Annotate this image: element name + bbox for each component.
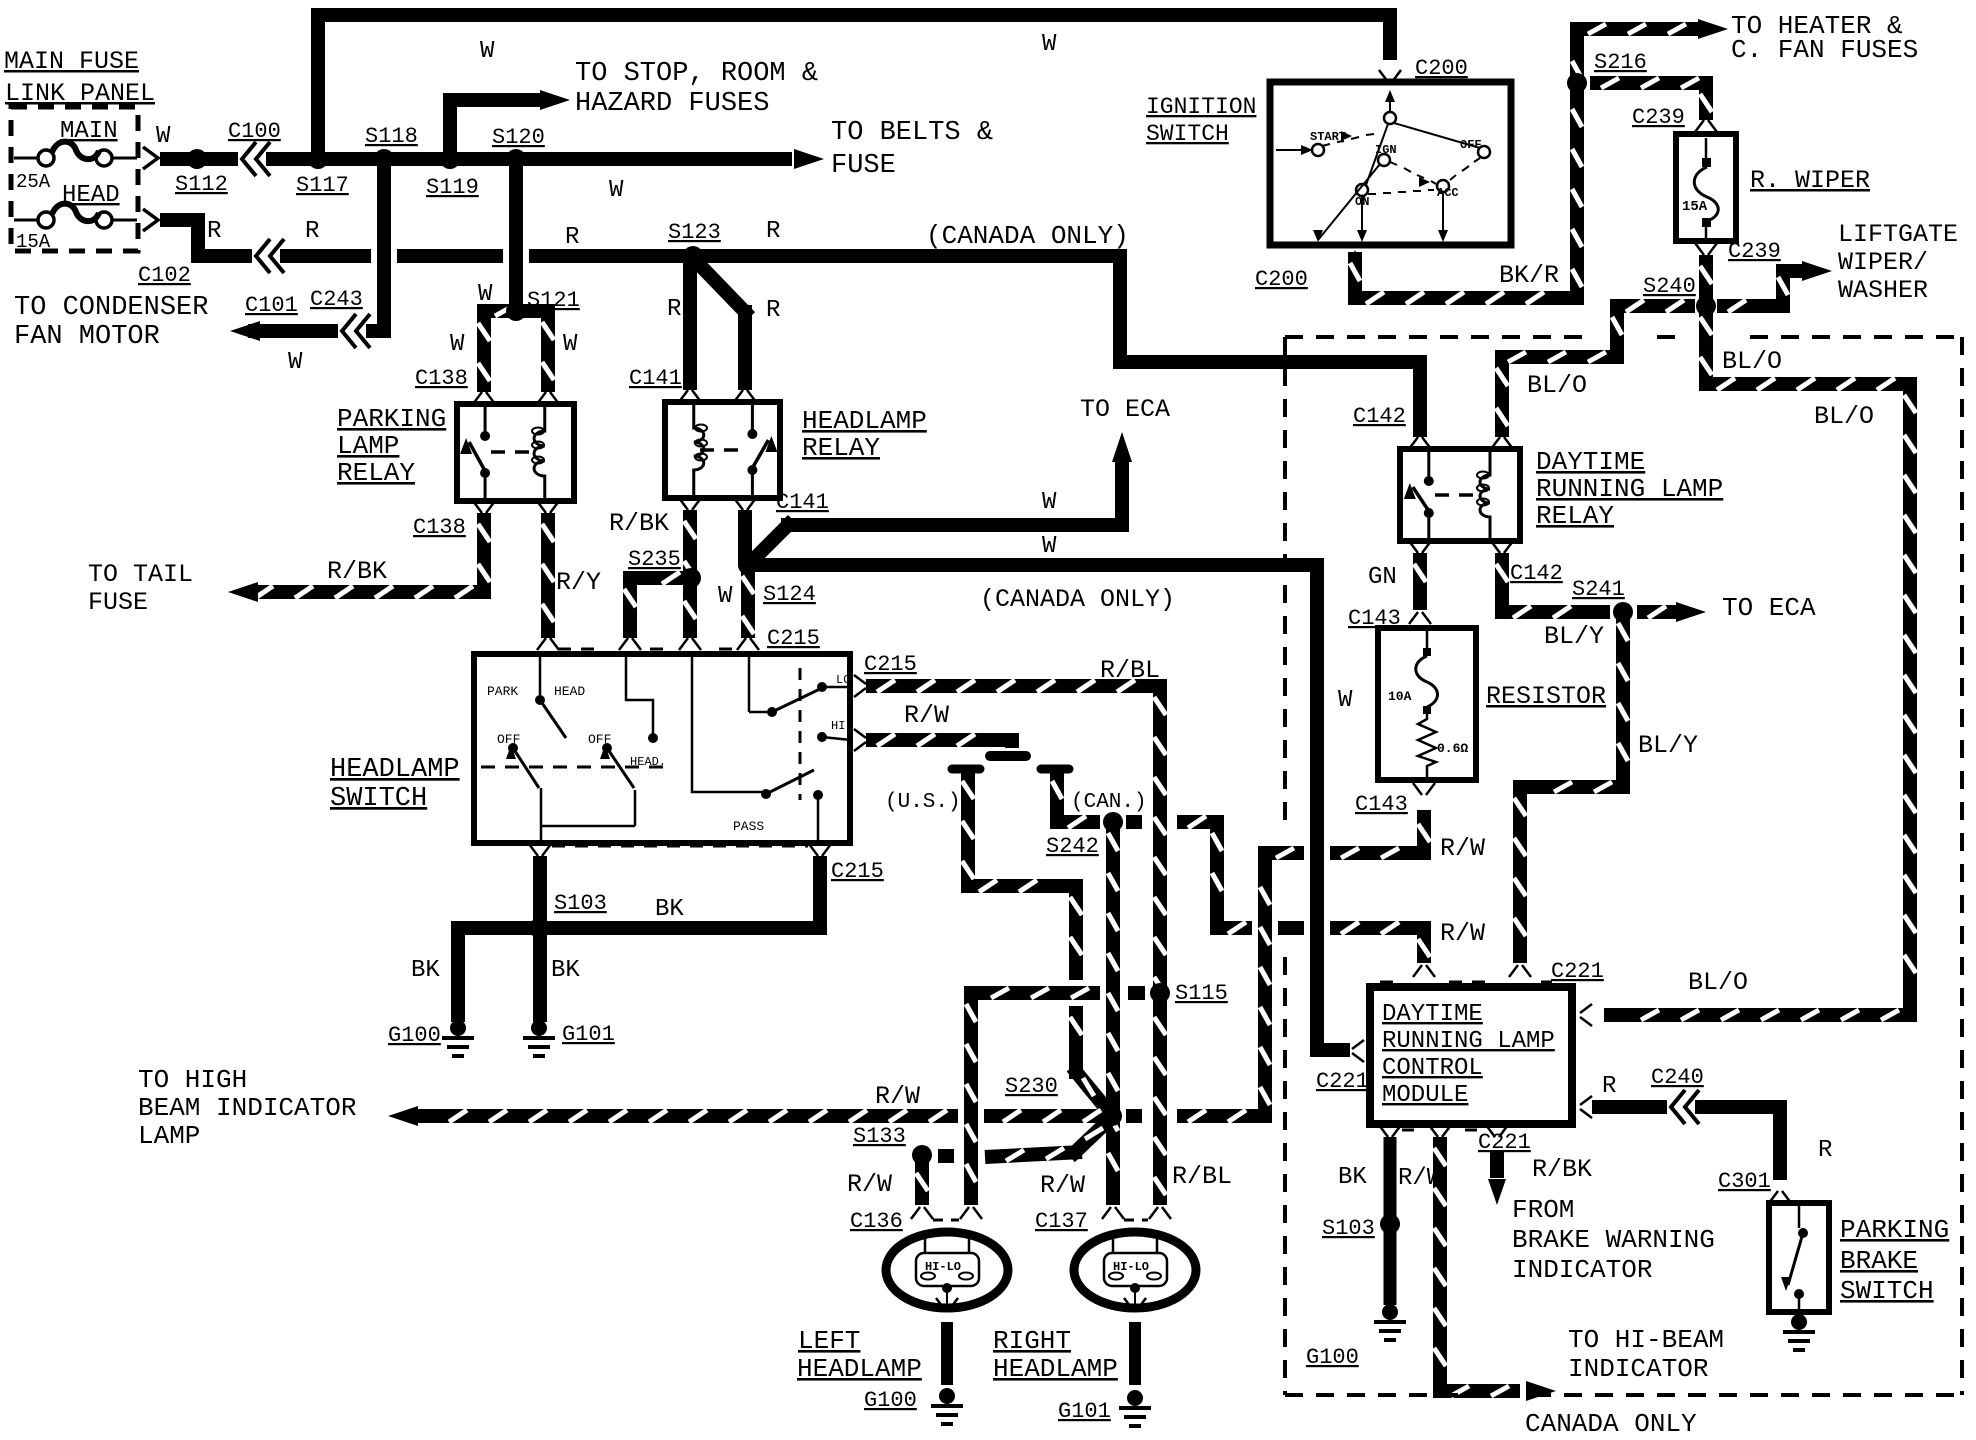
svg-text:S103: S103 [1322,1216,1375,1241]
svg-text:C136: C136 [850,1209,903,1234]
svg-text:LEFT: LEFT [798,1326,860,1356]
headlamp switch box [474,654,850,843]
wire R/BK module from brake warning indicator [1488,1150,1592,1205]
svg-text:R/BL: R/BL [1100,656,1160,685]
svg-text:MAIN FUSE: MAIN FUSE [4,47,139,76]
ignition switch internals [1276,90,1490,242]
svg-text:S216: S216 [1594,50,1647,75]
parking lamp relay K1 [457,404,574,501]
svg-text:R: R [207,218,221,245]
svg-text:C142: C142 [1353,404,1406,429]
svg-text:BL/Y: BL/Y [1638,731,1698,760]
svg-text:0.6Ω: 0.6Ω [1437,741,1468,756]
svg-text:C200: C200 [1415,56,1468,81]
wire BK switch ground to S103 and C215 return [411,856,827,1022]
svg-text:TO ECA: TO ECA [1080,395,1170,424]
connector C142 lower [1409,541,1563,586]
svg-text:C102: C102 [138,263,191,288]
wire GN relay to resistor [1368,553,1426,610]
svg-text:R: R [766,297,780,324]
svg-text:BRAKE WARNING: BRAKE WARNING [1512,1225,1715,1255]
svg-text:PASS: PASS [733,819,764,834]
svg-text:R/W: R/W [847,1170,892,1199]
svg-text:TO HIGH: TO HIGH [138,1065,247,1095]
svg-text:C215: C215 [767,626,820,651]
svg-text:C221: C221 [1551,959,1604,984]
wire W riser to stop room hazard fuses [443,38,570,159]
hook U.S. option [885,769,980,814]
svg-text:C221: C221 [1478,1130,1531,1155]
svg-text:W: W [1042,489,1057,516]
svg-text:C215: C215 [831,859,884,884]
svg-text:S242: S242 [1046,834,1099,859]
ground parking brake switch [1791,1314,1807,1330]
splice S230 [1005,1074,1122,1126]
svg-text:BL/O: BL/O [1527,371,1587,400]
wire W headlamp relay to S124 [738,510,752,565]
svg-text:C138: C138 [413,515,466,540]
svg-text:TO BELTS &: TO BELTS & [831,118,993,148]
svg-text:G101: G101 [562,1022,615,1047]
canada only dashed border [1285,337,1962,1439]
label right headlamp [993,1326,1118,1384]
svg-text:BL/O: BL/O [1722,347,1782,376]
svg-text:S117: S117 [296,173,349,198]
connector C200 bottom [1255,250,1362,292]
wire to liftgate wiper washer [1717,261,1832,313]
wire R module to parking brake switch [1592,1073,1832,1180]
wire R/W long run to high beam indicator lamp [388,1082,1112,1126]
svg-text:TO ECA: TO ECA [1722,593,1816,623]
svg-text:R/W: R/W [1440,834,1485,863]
hook CAN option [1041,769,1147,814]
svg-text:C221: C221 [1316,1069,1369,1094]
connector C215 right outputs [854,652,917,751]
svg-text:W: W [478,281,493,308]
svg-text:S230: S230 [1005,1074,1058,1099]
splice S115 [1150,981,1228,1006]
svg-text:PARKING: PARKING [337,404,446,434]
svg-text:R/W: R/W [1440,919,1485,948]
svg-text:S235: S235 [628,547,681,572]
svg-text:LINK PANEL: LINK PANEL [5,79,155,108]
svg-text:S124: S124 [763,582,816,607]
label to heater and c fan fuses [1731,11,1918,65]
wire R/W CAN routing to S242 and C137 [1050,770,1118,1205]
svg-text:G100: G100 [388,1023,441,1048]
wire S133 drop to C136 [847,1162,928,1205]
svg-text:(CANADA ONLY): (CANADA ONLY) [926,221,1129,251]
svg-text:W: W [1338,687,1353,714]
svg-text:RELAY: RELAY [337,458,415,488]
panel output half-connectors [143,147,158,231]
svg-text:BK: BK [551,957,580,984]
svg-text:C142: C142 [1510,561,1563,586]
svg-text:CONTROL: CONTROL [1382,1055,1483,1082]
connector C200 top [1379,56,1468,82]
svg-text:FAN MOTOR: FAN MOTOR [14,322,160,352]
wire BL/Y S241 to DRL module C221 [1513,612,1698,963]
svg-text:HI: HI [831,719,845,733]
svg-text:C239: C239 [1632,105,1685,130]
label left headlamp [797,1326,922,1384]
wire branch S235 to switch [623,571,691,638]
svg-text:C239: C239 [1728,239,1781,264]
svg-text:10A: 10A [1388,689,1412,704]
svg-text:TO HI-BEAM: TO HI-BEAM [1568,1325,1724,1355]
wire R/W S230 diagonal branch to S133 [938,1120,1109,1200]
splice S118 [365,124,418,169]
connector C221 bottom pins [1379,1125,1531,1155]
splice S121 [506,288,580,321]
svg-text:R: R [565,224,579,251]
svg-text:WASHER: WASHER [1838,276,1928,305]
wire R/W U.S. routing to S230 [961,770,1109,1112]
label to tail fuse [88,560,193,617]
connector C137 [1035,1207,1171,1234]
splice S123 [668,220,721,266]
svg-text:C200: C200 [1255,267,1308,292]
svg-text:GN: GN [1368,564,1397,591]
svg-text:R: R [667,296,681,323]
svg-text:HEAD: HEAD [554,684,585,699]
svg-text:R: R [766,218,780,245]
connector C240 [1651,1065,1704,1124]
svg-text:PARK: PARK [487,684,518,699]
svg-text:DAYTIME: DAYTIME [1536,447,1645,477]
svg-text:FUSE: FUSE [831,151,896,181]
svg-text:BRAKE: BRAKE [1840,1246,1918,1276]
parking brake switch [1769,1203,1829,1312]
wire W main bus [156,123,792,204]
svg-text:LAMP: LAMP [337,431,399,461]
left headlamp lamp [886,1232,1008,1308]
svg-text:BK: BK [1338,1164,1367,1191]
ground G100 canada [1306,1304,1406,1370]
splice S112 [175,149,228,197]
svg-text:S103: S103 [554,891,607,916]
svg-text:C215: C215 [864,652,917,677]
svg-text:HAZARD FUSES: HAZARD FUSES [575,89,769,119]
svg-text:R/W: R/W [1398,1165,1442,1192]
svg-text:BL/Y: BL/Y [1544,622,1604,651]
splice S216 [1567,50,1647,93]
connector C102 [138,263,191,288]
svg-text:C240: C240 [1651,1065,1704,1090]
svg-text:RESISTOR: RESISTOR [1486,682,1606,711]
svg-text:W: W [1042,533,1057,560]
svg-text:HEADLAMP: HEADLAMP [797,1354,922,1384]
svg-text:C243: C243 [310,287,363,312]
wire R/W S242 to DRL control module C221 [1126,815,1485,963]
svg-text:LAMP: LAMP [138,1121,200,1151]
label to condenser fan motor [14,293,208,352]
label to stop room hazard fuses [575,59,818,119]
connector C243 [310,287,370,348]
svg-text:BEAM INDICATOR: BEAM INDICATOR [138,1093,356,1123]
splice S103 [1322,1214,1400,1241]
connector C141 lower [679,490,829,515]
wire W S124 down to headlamp switch [742,565,754,638]
connector C221 right pins [1580,1004,1592,1118]
fuse HEAD 15A [14,182,137,253]
svg-text:W: W [480,38,495,65]
svg-text:15A: 15A [16,231,51,253]
headlamp switch internals [481,657,851,843]
wire branch S115 to left headlamp [964,986,1145,1205]
svg-text:IGNITION: IGNITION [1146,94,1256,120]
splice S242 [1046,812,1123,859]
svg-text:(CAN.): (CAN.) [1071,791,1147,814]
splice S241 [1572,577,1633,622]
wire fuse to S240 [1700,255,1712,306]
label headlamp relay [802,406,927,463]
svg-text:25A: 25A [16,171,51,193]
svg-text:C141: C141 [776,490,829,515]
svg-text:C. FAN FUSES: C. FAN FUSES [1731,35,1918,65]
wire W parking relay feed pins [450,304,578,392]
wire W drop S118 to condenser fan motor [230,159,391,376]
svg-text:HEADLAMP: HEADLAMP [993,1354,1118,1384]
svg-text:S133: S133 [853,1124,906,1149]
svg-text:BL/O: BL/O [1814,402,1874,431]
arrow to belts and fuse [794,118,993,181]
svg-text:S115: S115 [1175,981,1228,1006]
connector C142 upper [1353,404,1513,449]
svg-text:C100: C100 [228,119,281,144]
svg-text:W: W [156,123,171,150]
splice S103 [529,891,607,938]
svg-text:G101: G101 [1058,1399,1111,1424]
svg-text:W: W [563,331,578,358]
wire R/Y parking relay to headlamp switch [542,513,601,638]
svg-text:S118: S118 [365,124,418,149]
ground G101 right headlamp [1058,1390,1151,1426]
wire R/W S230 to resistor C143 [1126,810,1485,1123]
label to hi-beam indicator [1568,1325,1724,1384]
wire R bus from head fuse [160,213,1427,437]
main fuse link panel [4,47,155,251]
svg-text:S241: S241 [1572,577,1625,602]
svg-text:BK/R: BK/R [1499,261,1559,290]
svg-text:RELAY: RELAY [802,433,880,463]
svg-text:S120: S120 [492,125,545,150]
svg-text:RIGHT: RIGHT [993,1326,1071,1356]
svg-text:C143: C143 [1355,792,1408,817]
ground G100 left [388,1020,474,1056]
wire BK/R ignition to S216 [1348,90,1584,305]
svg-text:G100: G100 [864,1388,917,1413]
svg-text:W: W [1042,31,1057,58]
ignition switch box [1270,82,1511,245]
label daytime running lamp relay [1536,447,1723,531]
svg-text:W: W [288,349,303,376]
svg-text:R. WIPER: R. WIPER [1750,166,1870,195]
label ignition switch [1146,94,1256,147]
connector C239 lower [1695,239,1781,264]
svg-text:TO STOP, ROOM &: TO STOP, ROOM & [575,59,818,89]
splice S240 [1643,274,1716,316]
right headlamp lamp [1074,1232,1196,1308]
splice S119 [426,149,479,200]
svg-text:SWITCH: SWITCH [1840,1276,1934,1306]
label headlamp switch [330,755,460,814]
svg-text:C101: C101 [245,293,298,318]
svg-text:TO TAIL: TO TAIL [88,560,193,589]
wire to heater and c fan fuses [1570,19,1728,90]
connector C143 upper [1348,606,1431,631]
wire W top bus to ignition switch [311,8,1397,159]
label liftgate wiper washer [1838,220,1958,305]
connector C138 lower [413,501,559,540]
svg-text:DAYTIME: DAYTIME [1382,1001,1483,1028]
svg-text:R: R [1818,1137,1832,1164]
splice S120 [492,125,545,169]
svg-text:HEADLAMP: HEADLAMP [802,406,927,436]
svg-text:R/BK: R/BK [609,509,669,538]
splice S133 [853,1124,932,1165]
connector C100 [228,119,281,176]
svg-text:C301: C301 [1718,1169,1771,1194]
wire R/BK to tail fuse [228,513,491,602]
svg-text:WIPER/: WIPER/ [1838,248,1928,277]
svg-text:CANADA ONLY: CANADA ONLY [1525,1409,1697,1439]
svg-text:C141: C141 [629,366,682,391]
wire R/W HI output with hook [866,701,1026,756]
svg-text:(CANADA ONLY): (CANADA ONLY) [980,585,1175,614]
resistor 10A 0.6 ohm [1378,628,1476,780]
wire BL/O S240 to DRL relay C142 [1495,299,1695,437]
svg-text:C138: C138 [415,366,468,391]
svg-text:C137: C137 [1035,1209,1088,1234]
svg-text:R/Y: R/Y [556,568,601,597]
label parking lamp relay [337,404,446,488]
connector C239 upper [1632,105,1717,132]
ground G100 left headlamp [864,1388,963,1424]
label to high beam indicator lamp [138,1065,356,1151]
daytime running lamp control module [1370,982,1572,1124]
svg-text:SWITCH: SWITCH [330,784,427,814]
svg-text:BK: BK [411,957,440,984]
svg-text:FROM: FROM [1512,1195,1574,1225]
svg-text:S119: S119 [426,175,479,200]
svg-text:TO CONDENSER: TO CONDENSER [14,293,208,323]
wire BL/O S240 to DRL module via right edge [1604,306,1917,1022]
label from brake warning indicator [1512,1195,1715,1285]
svg-text:PARKING: PARKING [1840,1215,1949,1245]
connector C143 lower [1355,783,1435,817]
svg-text:RUNNING LAMP: RUNNING LAMP [1536,474,1723,504]
svg-text:HEADLAMP: HEADLAMP [330,755,460,785]
svg-text:R: R [305,218,319,245]
svg-text:S112: S112 [175,172,228,197]
svg-text:R/W: R/W [904,701,949,730]
fuse MAIN 25A [14,118,137,193]
svg-text:S240: S240 [1643,274,1696,299]
svg-text:RELAY: RELAY [1536,501,1614,531]
svg-text:FUSE: FUSE [88,588,148,617]
svg-text:(U.S.): (U.S.) [885,791,961,814]
svg-text:LIFTGATE: LIFTGATE [1838,220,1958,249]
connector C101 [245,239,298,318]
wire W S124 long run to DRL module [748,533,1353,1057]
splice S124 [718,555,816,610]
connector C136 [850,1207,982,1234]
wire R/BK headlamp relay to switch via S235 [609,509,696,638]
wire BK module to S103 and ground [1338,1137,1390,1305]
svg-text:R/W: R/W [875,1082,920,1111]
splice S235 [628,547,701,588]
wire W drop S120 to S121 [478,159,516,311]
svg-text:R/W: R/W [1040,1171,1085,1200]
svg-text:OFF: OFF [497,732,520,747]
svg-text:S123: S123 [668,220,721,245]
svg-text:RUNNING LAMP: RUNNING LAMP [1382,1028,1555,1055]
svg-text:INDICATOR: INDICATOR [1568,1354,1708,1384]
left headlamp ground wire [936,1298,958,1385]
connector C221 top pins [1413,965,1531,977]
connector C301 [1718,1169,1791,1203]
connector C141 upper [629,366,756,402]
svg-text:R/BK: R/BK [1532,1155,1592,1184]
wire R/W module to hi-beam indicator [1398,1137,1556,1401]
fuse R. WIPER 15A [1676,134,1736,241]
svg-text:W: W [718,583,733,610]
svg-text:MODULE: MODULE [1382,1082,1468,1109]
connector C215 top row [537,626,820,651]
svg-text:BK: BK [655,896,684,923]
svg-text:R/BK: R/BK [327,557,387,586]
svg-text:W: W [609,177,624,204]
connector C138 upper [415,366,559,404]
svg-text:G100: G100 [1306,1345,1359,1370]
right headlamp ground wire [1124,1298,1146,1385]
splice S117 [296,149,349,198]
daytime running lamp relay K3 [1400,449,1520,541]
svg-text:R/BL: R/BL [1172,1162,1232,1191]
wire R headlamp relay feed pins [667,256,780,390]
wire BL/Y relay to S241 and to ECA [1495,553,1706,651]
svg-text:BL/O: BL/O [1688,968,1748,997]
wire R/BL LO output to right headlamp [866,656,1232,1205]
svg-text:SWITCH: SWITCH [1146,121,1229,147]
wire W S124 to ECA [750,432,1132,563]
connector C215 bottom row [529,844,884,884]
label parking brake switch [1840,1215,1949,1306]
svg-text:15A: 15A [1682,199,1708,215]
svg-text:S121: S121 [527,288,580,313]
connector C221 left pin [1316,1040,1369,1094]
wire S216 to rear wiper fuse [1590,76,1713,120]
ground G101 left [523,1020,615,1056]
headlamp relay K2 [665,402,780,498]
svg-text:R: R [1602,1073,1616,1100]
svg-text:W: W [450,331,465,358]
svg-text:INDICATOR: INDICATOR [1512,1255,1652,1285]
svg-text:LO: LO [836,673,850,687]
